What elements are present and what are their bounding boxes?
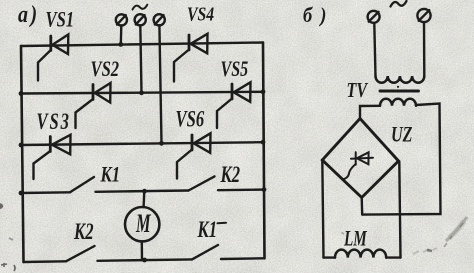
contact K2 (rail 4 right) xyxy=(189,176,215,190)
node rail3/right bus xyxy=(261,140,266,145)
wire bridge bottom stub xyxy=(361,198,364,215)
svg-text:VS6: VS6 xyxy=(176,107,205,132)
wire rail 4 (K1/K2 row) xyxy=(21,191,70,194)
scan marks bottom-left xyxy=(1,263,7,267)
terminal X2 xyxy=(135,14,146,25)
scan smudge right xyxy=(446,217,467,241)
svg-text:LМ: LМ xyxy=(343,227,367,252)
node rail4/left bus xyxy=(19,191,24,196)
wire rail 3 xyxy=(21,142,263,145)
svg-text:ТV: ТV xyxy=(347,79,369,103)
svg-text:К2: К2 xyxy=(220,163,240,188)
node rail3/left bus xyxy=(19,143,24,148)
svg-text:б): б) xyxy=(303,4,334,27)
wire secondary right to right bus xyxy=(363,104,441,215)
left edge blob xyxy=(0,203,3,209)
node rail3/X3 xyxy=(159,141,164,146)
wire bottom rail xyxy=(24,260,67,263)
transformer core xyxy=(380,90,419,93)
wire bridge left vertex down xyxy=(322,160,323,258)
thyristor VS6 xyxy=(176,107,211,178)
contact K1- (bottom right) xyxy=(192,245,218,259)
thyristor VS2 xyxy=(76,58,120,128)
contact K1 (rail 4 left) xyxy=(70,177,94,192)
transformer TV primary coil xyxy=(376,76,425,83)
node rail2/X2 xyxy=(139,90,144,95)
terminal X1 xyxy=(116,14,127,25)
terminal X3 xyxy=(154,14,165,25)
wire secondary left to bridge top xyxy=(360,106,380,119)
terminal XB2 xyxy=(417,9,430,22)
node bottom/motor xyxy=(142,258,147,263)
motor M xyxy=(125,207,159,241)
svg-text:VS5: VS5 xyxy=(221,58,249,82)
node rail1/X1 xyxy=(118,42,123,47)
transformer TV secondary coil xyxy=(380,99,416,106)
thyristor VS1 xyxy=(38,8,74,80)
node rail4/right bus xyxy=(262,187,267,192)
thyristor VS4 xyxy=(174,3,214,82)
wire from terminal X2 xyxy=(140,25,141,93)
wire bridge right vertex down xyxy=(399,162,400,258)
AC tilde (a) xyxy=(133,5,148,10)
inductor LM xyxy=(324,256,336,258)
node rail2/left bus xyxy=(19,91,24,96)
rectifier UZ bridge xyxy=(322,119,398,198)
node rail4/motor xyxy=(142,189,147,194)
svg-text:VS3: VS3 xyxy=(37,110,71,135)
svg-text:UZ: UZ xyxy=(391,123,413,147)
wire primary left xyxy=(374,23,375,76)
svg-text:К1: К1 xyxy=(100,163,120,187)
svg-text:К1: К1 xyxy=(197,217,217,242)
svg-text:М: М xyxy=(135,209,151,238)
wire rail 1 (top) xyxy=(21,43,263,47)
wire from terminal X3 xyxy=(159,25,161,143)
svg-text:VS1: VS1 xyxy=(46,8,75,32)
wire from terminal X1 xyxy=(120,26,123,45)
contact K2 (bottom left) xyxy=(66,246,95,261)
svg-text:VS2: VS2 xyxy=(91,58,120,82)
svg-text:К2: К2 xyxy=(73,219,93,244)
wire left bus xyxy=(21,46,24,262)
svg-text:VS4: VS4 xyxy=(187,3,214,25)
node rail2/right bus xyxy=(261,89,266,94)
wire right bus xyxy=(263,43,265,259)
thyristor inside UZ xyxy=(343,152,374,179)
wire rail 2 xyxy=(21,92,263,94)
wire primary right xyxy=(423,23,426,77)
svg-text:a): a) xyxy=(18,0,40,27)
terminal XB1 xyxy=(368,11,380,23)
AC tilde (b) xyxy=(391,1,407,7)
thyristor VS3 xyxy=(34,110,71,179)
thyristor VS5 xyxy=(217,58,251,128)
